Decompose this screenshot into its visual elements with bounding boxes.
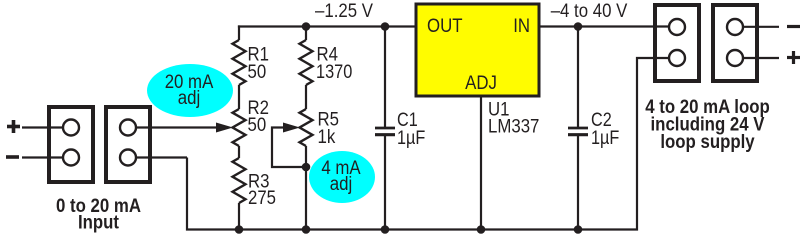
svg-text:adj: adj: [178, 88, 201, 109]
connector J1 input block: [49, 107, 93, 182]
wire R4 branch top: [305, 27, 307, 41]
svg-text:LM337: LM337: [488, 117, 539, 138]
svg-text:–4 to 40 V: –4 to 40 V: [551, 1, 628, 22]
capacitor C1: [384, 27, 386, 128]
callout bubble 20 mA adj: [147, 64, 233, 117]
wire R5 rheostat strap: [272, 128, 306, 168]
input terminal minus lead: [22, 156, 63, 158]
resistor R3: [233, 158, 246, 203]
svg-text:adj: adj: [330, 174, 353, 195]
wire top rail right (-4 to 40 V net): [539, 25, 670, 27]
svg-text:275: 275: [248, 188, 276, 209]
connector J4 loop block: [713, 5, 757, 81]
op-amp U1 regulator LM337 box: [416, 4, 539, 96]
callout bubble 4 mA adj: [309, 151, 375, 203]
resistor R4: [300, 40, 313, 85]
wire R2 to R3: [238, 146, 240, 158]
wire input minus to bottom rail: [136, 156, 187, 158]
resistor R1: [233, 40, 246, 85]
wire loop minus lead: [743, 26, 779, 28]
svg-text:1µF: 1µF: [591, 128, 619, 149]
svg-text:loop supply: loop supply: [660, 132, 755, 153]
svg-text:1370: 1370: [316, 62, 352, 83]
node junction dots top rail: [302, 22, 311, 31]
wire input plus to R2 wiper: [136, 126, 218, 128]
potentiometer R2: [233, 109, 246, 146]
svg-text:50: 50: [248, 115, 267, 136]
input plus symbol: [7, 120, 20, 133]
loop plus symbol: [787, 51, 800, 64]
potentiometer R5: [300, 109, 313, 146]
wire R3 to bottom rail: [238, 203, 240, 230]
wire top rail left (-1.25 V net): [238, 25, 416, 27]
wire R1 branch top: [238, 25, 240, 40]
input terminal plus lead: [22, 126, 63, 128]
input minus symbol: [6, 155, 19, 159]
svg-text:IN: IN: [513, 16, 530, 37]
wire U1 ADJ to bottom rail: [480, 96, 482, 230]
svg-text:1k: 1k: [318, 127, 336, 148]
loop minus symbol: [787, 25, 800, 28]
node R5 wiper junction: [302, 163, 311, 172]
svg-text:ADJ: ADJ: [465, 73, 497, 94]
connector J3 loop block: [655, 5, 699, 81]
svg-text:–1.25 V: –1.25 V: [315, 1, 373, 22]
connector J2 input block: [106, 107, 150, 182]
wire loop plus lead: [743, 57, 779, 59]
capacitor C2: [577, 27, 579, 128]
wire bottom rail: [187, 58, 670, 230]
svg-text:OUT: OUT: [427, 16, 463, 37]
svg-text:1µF: 1µF: [397, 128, 425, 149]
wire R1 to R2: [238, 85, 240, 109]
svg-text:Input: Input: [78, 213, 120, 234]
wire R4 to R5: [305, 85, 307, 109]
svg-text:50: 50: [248, 62, 267, 83]
node junction dots bottom rail: [235, 225, 244, 234]
wire R5 to bottom rail: [305, 146, 307, 230]
